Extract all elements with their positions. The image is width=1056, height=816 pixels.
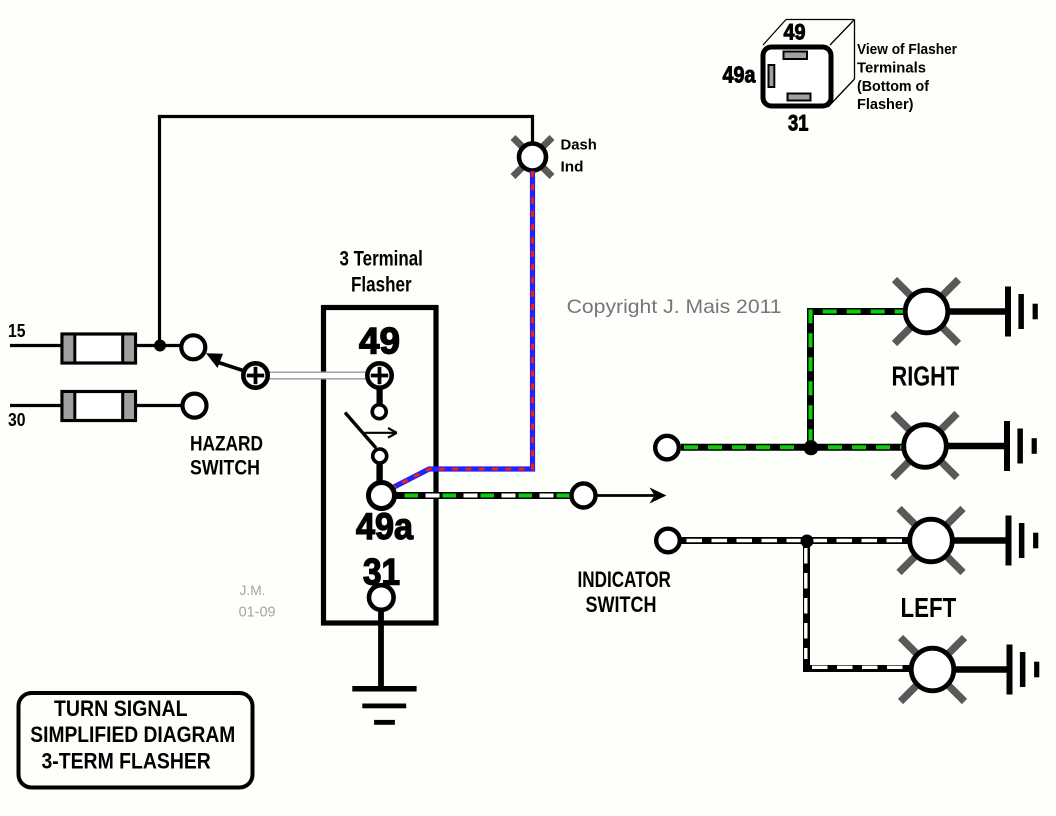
svg-text:Flasher): Flasher): [857, 96, 914, 113]
wire terminal 15 to fuse: [10, 344, 64, 347]
svg-text:HAZARD: HAZARD: [190, 432, 263, 456]
label TURN SIGNAL SIMPLIFIED DIAGRAM 3-TERM FLASHER: [30, 696, 235, 773]
white wire hazard + to flasher +: [268, 372, 367, 379]
hazard switch terminal A: [181, 335, 205, 359]
hazard switch terminal B: [183, 394, 207, 418]
ground right rear: [1004, 421, 1037, 471]
ground: [352, 686, 416, 725]
contact circle lower: [373, 449, 387, 463]
svg-text:SWITCH: SWITCH: [190, 456, 260, 480]
lamp right rear: [893, 414, 957, 478]
svg-text:49a: 49a: [356, 506, 413, 547]
junction dot: [154, 340, 166, 352]
indicator switch arrow: [597, 488, 667, 504]
wire left turn black base: [682, 541, 911, 669]
svg-text:49: 49: [784, 20, 806, 45]
svg-text:TURN SIGNAL: TURN SIGNAL: [54, 696, 188, 721]
flasher box: [324, 308, 437, 624]
switch arrow: [365, 428, 397, 438]
terminal 49a: [369, 483, 395, 509]
fuse F1: [62, 334, 136, 363]
svg-text:3-TERM FLASHER: 3-TERM FLASHER: [42, 748, 211, 773]
lamp right front: [895, 280, 959, 344]
svg-text:49a: 49a: [723, 62, 756, 88]
svg-text:Ind: Ind: [561, 159, 584, 176]
link contact to 49a: [376, 463, 382, 481]
link 49 to contact: [377, 389, 383, 406]
flasher + terminal 49: [367, 363, 391, 387]
flasher terminal view box: [763, 20, 855, 108]
green circuit terminal: [655, 436, 679, 460]
hazard + terminal: [243, 363, 267, 387]
wire lamp to ground: [950, 308, 1007, 315]
lamp dash indicator: [513, 138, 552, 177]
svg-text:RIGHT: RIGHT: [892, 361, 960, 392]
svg-text:Terminals: Terminals: [857, 59, 926, 76]
junction right: [804, 440, 819, 455]
contact circle upper: [372, 405, 386, 419]
wire right turn black base: [681, 312, 903, 448]
svg-text:INDICATOR: INDICATOR: [578, 567, 671, 592]
svg-text:(Bottom of: (Bottom of: [857, 78, 930, 95]
svg-text:Flasher: Flasher: [351, 274, 412, 297]
svg-text:31: 31: [788, 111, 809, 136]
svg-text:SWITCH: SWITCH: [586, 592, 657, 617]
wire lamp to ground: [954, 537, 1007, 544]
svg-text:LEFT: LEFT: [901, 592, 957, 623]
wire right turn green dashes: [684, 312, 903, 448]
wire fuse to hazard switch terminal B: [135, 404, 181, 407]
svg-text:01-09: 01-09: [239, 603, 276, 620]
wire lamp to ground: [948, 443, 1005, 450]
white circuit terminal: [656, 529, 680, 553]
lamp left front: [899, 509, 963, 573]
wire blue/red from flasher 49a to dash indicator: [393, 171, 533, 488]
svg-text:SIMPLIFIED DIAGRAM: SIMPLIFIED DIAGRAM: [30, 722, 235, 747]
ground left rear: [1007, 645, 1040, 695]
svg-text:View of Flasher: View of Flasher: [857, 41, 957, 58]
terminal 31: [369, 585, 394, 610]
wire 49a feed green/white: [393, 492, 571, 499]
hazard switch arrow: [206, 353, 245, 371]
svg-text:J.M.: J.M.: [240, 582, 266, 598]
wire lamp to ground: [955, 666, 1008, 673]
ground stem: [378, 611, 384, 688]
title box: [19, 693, 253, 788]
indicator switch terminal: [572, 484, 596, 508]
svg-text:15: 15: [8, 321, 26, 341]
junction left: [801, 535, 814, 548]
svg-text:Copyright J. Mais 2011: Copyright J. Mais 2011: [567, 296, 782, 318]
wire top feed loop: [160, 117, 533, 346]
fuse F2: [62, 392, 136, 421]
svg-text:3 Terminal: 3 Terminal: [340, 248, 423, 271]
svg-text:Dash: Dash: [561, 137, 597, 154]
svg-text:49: 49: [359, 321, 400, 362]
label view of flasher terminals: [857, 41, 957, 113]
wire fuse to hazard switch: [135, 344, 180, 347]
wire left turn white dashes: [687, 541, 911, 668]
lamp left rear: [901, 638, 965, 702]
ground right front: [1005, 287, 1038, 337]
wire terminal 30 to fuse: [10, 404, 64, 407]
switch blade: [345, 413, 376, 449]
ground left front: [1006, 516, 1039, 566]
svg-text:30: 30: [8, 410, 26, 430]
